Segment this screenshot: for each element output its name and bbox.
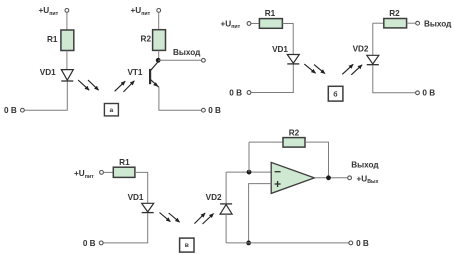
LED VD1 (b) — [287, 55, 299, 64]
wire supply to R1 (b) — [251, 23, 259, 25]
resistor R1 (a) — [61, 30, 74, 51]
svg-text:+Uпит: +Uпит — [74, 169, 94, 180]
light arrows into VD2 (b) — [342, 64, 362, 75]
wire R2 to output terminal (b) — [407, 22, 416, 24]
svg-text:VD1: VD1 — [128, 193, 144, 202]
svg-text:R1: R1 — [265, 9, 276, 18]
wire supply to R1 (v) — [104, 171, 114, 173]
light emission arrows (v) — [160, 213, 180, 223]
terminal 0V (b right) — [416, 91, 420, 95]
wire VD2 up to inverting input line — [225, 172, 227, 203]
wire VD1 to 0V rail (a left) — [25, 82, 68, 111]
wire op amp output — [314, 177, 347, 179]
resistor R2 (b) — [384, 19, 407, 28]
photodiode VD2 (v) — [220, 204, 232, 214]
wire emitter to 0V rail (a right) — [159, 87, 201, 110]
svg-text:R2: R2 — [389, 9, 400, 18]
wire supply to R1 — [66, 13, 68, 30]
wire VD2 node to R2 (b) — [373, 22, 384, 24]
plus sign — [275, 181, 281, 187]
LED VD1 (v) — [142, 203, 154, 212]
svg-text:R2: R2 — [141, 34, 152, 43]
terminal +Uпит (b) — [247, 22, 251, 26]
transistor VT1 — [150, 61, 159, 87]
wire VD1 to 0V rail (b left) — [251, 65, 293, 93]
svg-text:в: в — [185, 242, 189, 249]
light arrows into VT1 — [115, 81, 135, 92]
svg-text:+UВых: +UВых — [357, 174, 379, 185]
terminal output (a) — [202, 58, 206, 62]
terminal 0V (a right) — [202, 108, 206, 112]
wire feedback up — [248, 142, 250, 172]
resistor R1 (v) — [113, 167, 135, 177]
svg-text:Выход: Выход — [351, 160, 379, 169]
node output junction — [326, 175, 331, 180]
svg-text:VD1: VD1 — [272, 45, 288, 54]
light emission arrows VD1 (a) — [78, 80, 99, 90]
wire VD2 down to 0V rail — [225, 214, 227, 243]
svg-text:0 В: 0 В — [4, 106, 17, 115]
svg-text:б: б — [333, 90, 338, 98]
box v — [180, 238, 194, 252]
svg-text:R1: R1 — [47, 35, 58, 44]
svg-text:+Uпит: +Uпит — [221, 19, 241, 30]
svg-text:+Uпит: +Uпит — [131, 6, 151, 17]
svg-text:VD2: VD2 — [206, 193, 222, 202]
light emission arrows (b) — [304, 64, 325, 74]
wire inverting input — [226, 171, 271, 173]
wire noninverting input — [249, 184, 272, 243]
terminal +Uпит (v) — [100, 171, 104, 175]
wire R1 to VD1 (b) — [282, 24, 293, 55]
svg-text:VD1: VD1 — [40, 68, 56, 77]
svg-text:R2: R2 — [289, 128, 300, 137]
wire R2 to collector node — [158, 50, 160, 60]
terminal 0V (v right) — [349, 241, 353, 245]
wire R1 to VD1 (v) — [135, 172, 148, 203]
svg-text:Выход: Выход — [424, 20, 452, 29]
wire VD2 to 0V rail (b right) — [373, 65, 416, 93]
node collector junction — [156, 58, 161, 63]
resistor R2 (a) — [153, 30, 166, 51]
terminal 0V (v left) — [99, 241, 103, 245]
terminal +Uпит (a right) — [157, 9, 161, 13]
wire R1 to VD1 — [66, 51, 68, 70]
box b — [328, 86, 343, 101]
op-amp U1 — [271, 162, 314, 193]
light arrows into VD2 (v) — [194, 213, 213, 224]
terminal output (v) — [348, 176, 352, 180]
svg-text:R1: R1 — [119, 158, 130, 167]
photodiode VD2 (b) — [367, 55, 379, 64]
resistor R2 (v) — [283, 138, 305, 148]
svg-text:0 В: 0 В — [208, 106, 221, 115]
wire R2 node down to VD2 (b) — [372, 23, 374, 55]
LED VD1 (a) — [61, 70, 73, 81]
resistor R1 (b) — [259, 19, 282, 29]
svg-text:0 В: 0 В — [422, 89, 435, 98]
wire node to output terminal — [158, 59, 201, 61]
wire R2 to output node (v) — [305, 142, 329, 178]
terminal output (b) — [416, 21, 420, 25]
svg-text:0 В: 0 В — [356, 239, 369, 248]
minus sign — [275, 171, 281, 173]
box a — [104, 104, 118, 116]
wire VD1 to 0V rail (v left) — [104, 213, 148, 243]
svg-text:Выход: Выход — [173, 48, 201, 57]
svg-text:0 В: 0 В — [83, 239, 96, 248]
node feedback / inverting input — [247, 170, 252, 175]
svg-text:0 В: 0 В — [229, 89, 242, 98]
terminal +Uпит (a left) — [65, 9, 69, 13]
svg-text:а: а — [109, 107, 113, 114]
0V rail (v) — [226, 242, 348, 244]
node noninverting to 0V rail — [246, 241, 251, 246]
svg-text:+Uпит: +Uпит — [39, 6, 59, 17]
svg-text:VD2: VD2 — [353, 45, 369, 54]
terminal 0V (b left) — [247, 91, 251, 95]
terminal 0V (a left) — [21, 108, 25, 112]
svg-text:VT1: VT1 — [127, 68, 142, 77]
wire feedback to R2 (v) — [249, 141, 283, 143]
wire supply to R2 — [158, 13, 160, 30]
